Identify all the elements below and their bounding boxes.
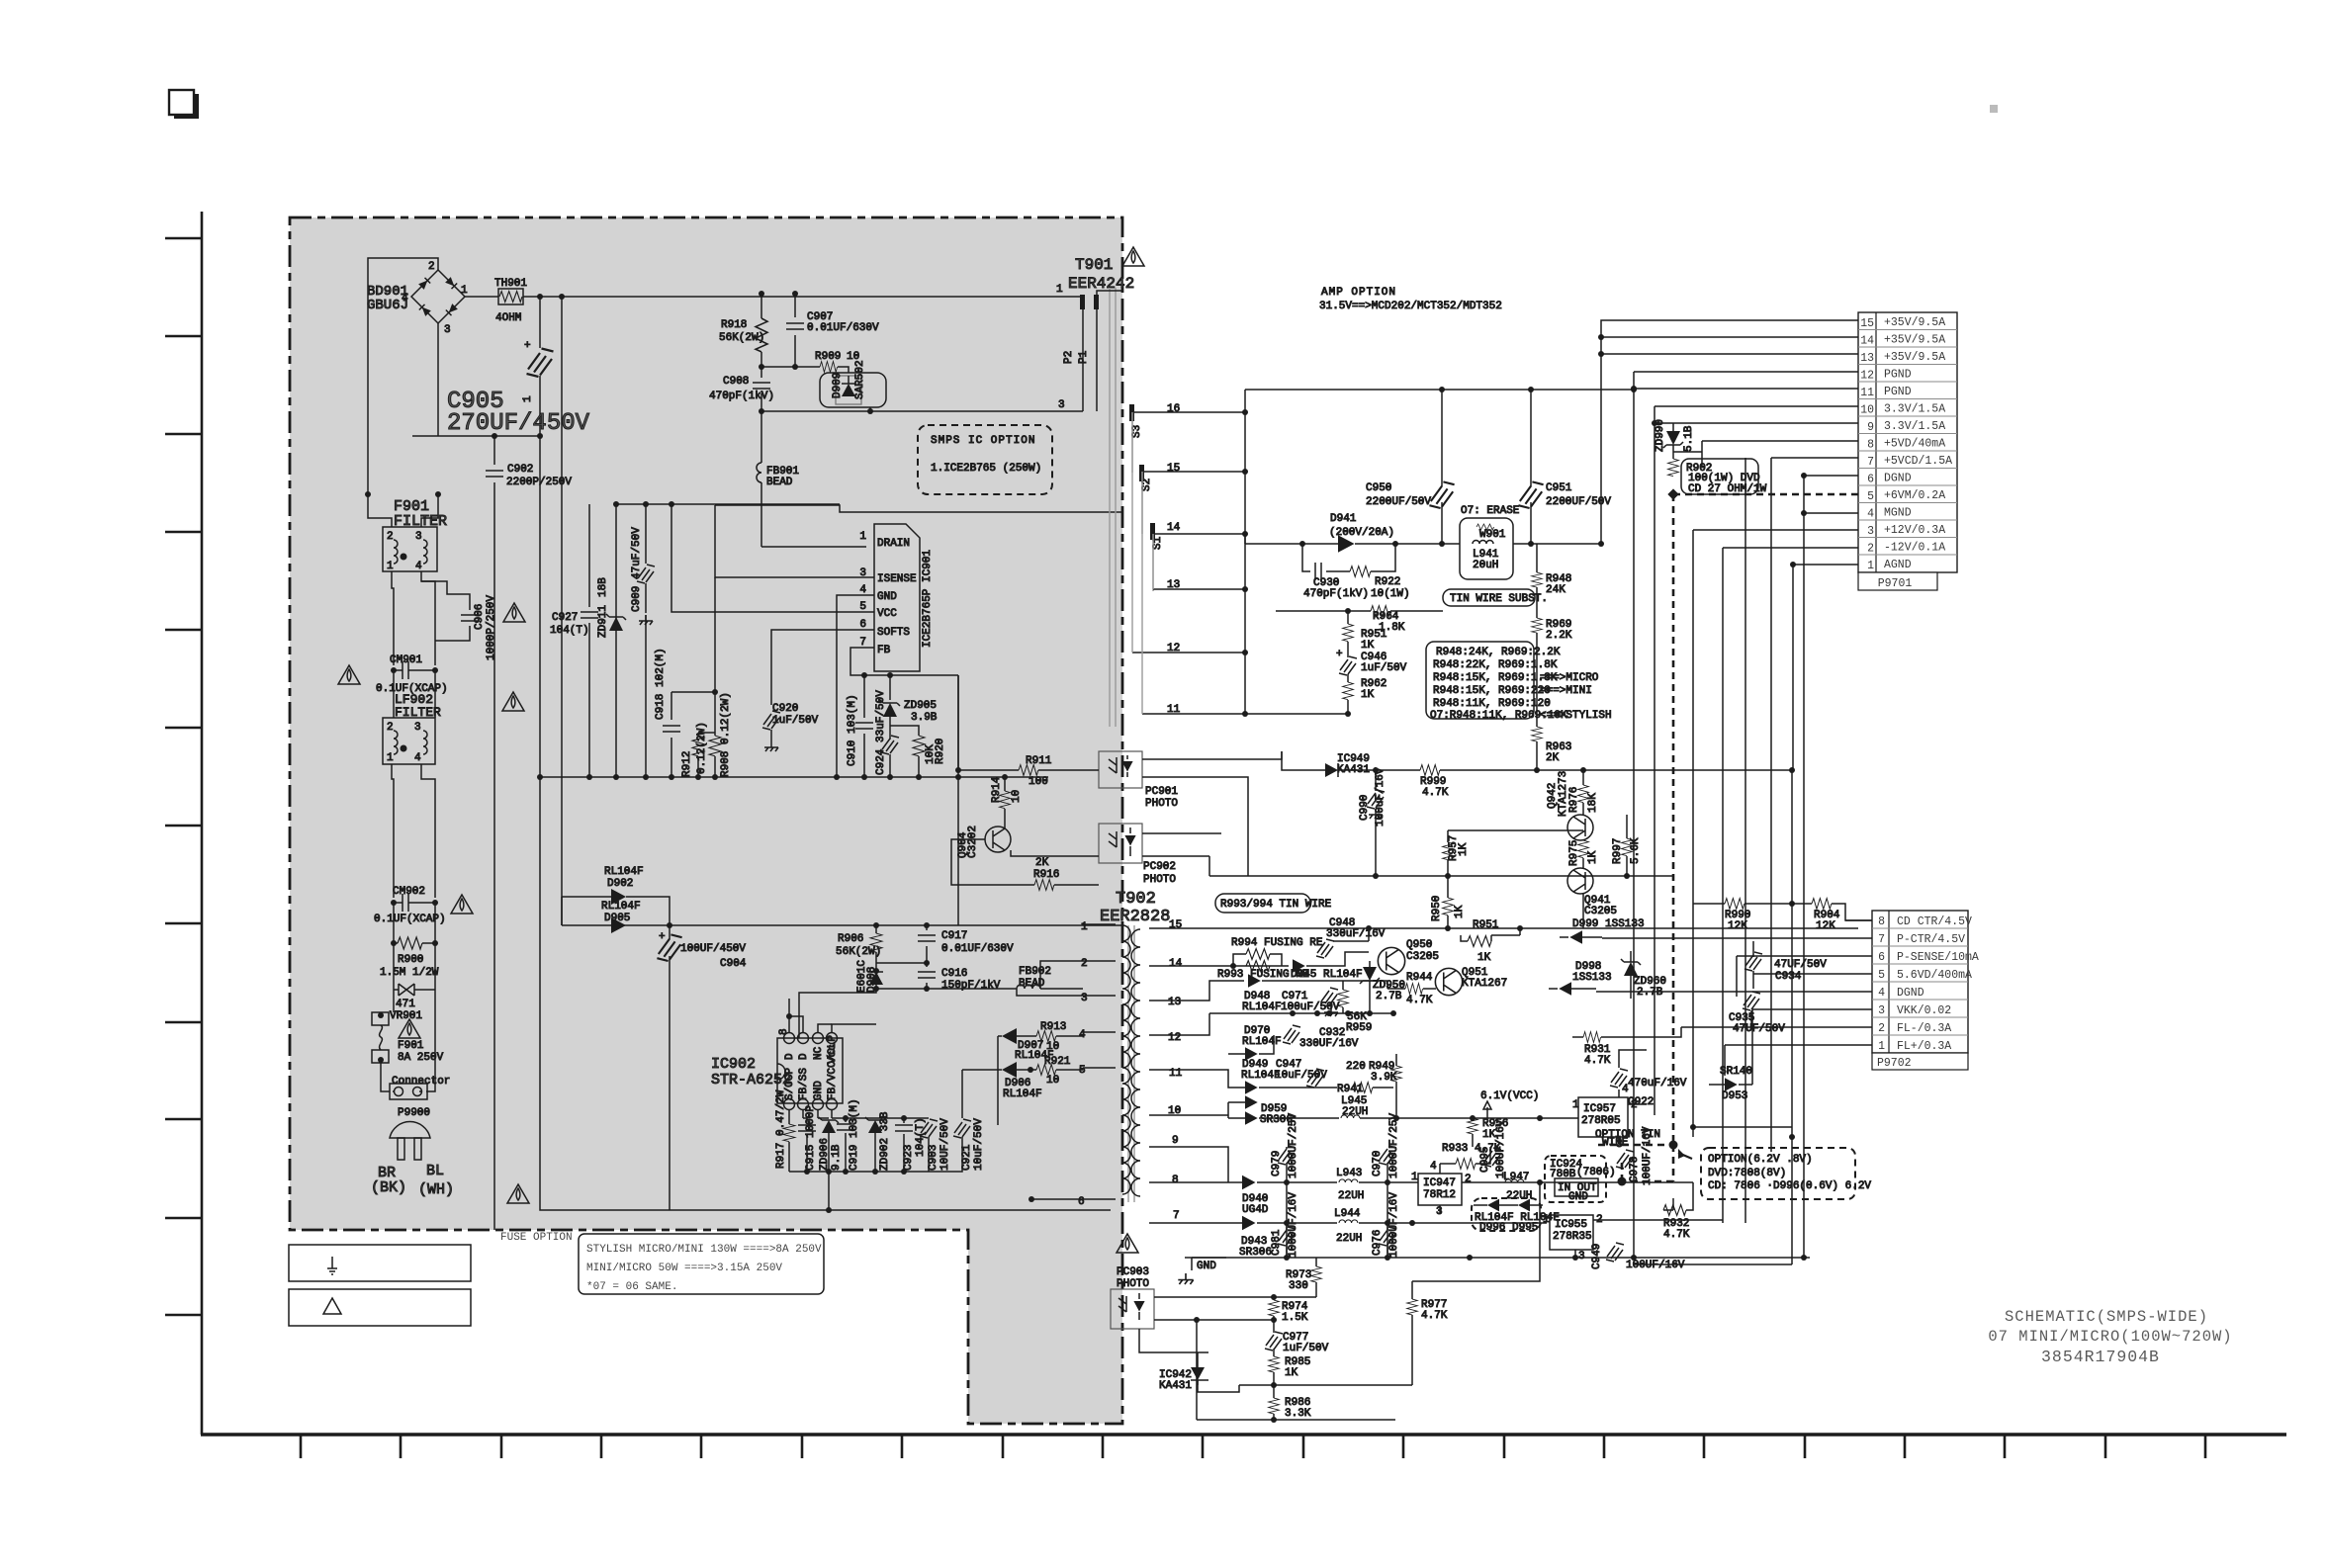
diode D945 RL104F xyxy=(1293,959,1305,973)
svg-text:3: 3 xyxy=(444,324,451,336)
wire bridge pin3 down xyxy=(437,323,439,436)
svg-text:1K: 1K xyxy=(1361,689,1375,701)
svg-text:1K: 1K xyxy=(1477,952,1491,964)
node R918/C907 xyxy=(761,366,820,368)
svg-text:VR901: VR901 xyxy=(390,1010,422,1022)
svg-text:9.1B: 9.1B xyxy=(831,1144,843,1171)
TIN WIRE SUBST. note xyxy=(1443,589,1535,606)
wire 14 loop with fusing resistors xyxy=(1202,965,1289,967)
svg-text:GND: GND xyxy=(813,1081,825,1100)
resistor R990 12K xyxy=(1693,903,1725,905)
long verticals right section xyxy=(1745,458,1792,1223)
svg-text:18B: 18B xyxy=(597,577,609,597)
filter caps C979/C970 xyxy=(1278,1146,1296,1165)
svg-text:C923: C923 xyxy=(903,1145,915,1171)
svg-text:C910 103(M): C910 103(M) xyxy=(847,694,858,766)
svg-text:10uF/50V: 10uF/50V xyxy=(973,1118,985,1171)
svg-text:P9701: P9701 xyxy=(1878,577,1913,590)
svg-text:R993/994 TIN WIRE: R993/994 TIN WIRE xyxy=(1220,899,1332,911)
svg-text:D941: D941 xyxy=(1330,513,1357,525)
fuse option note box xyxy=(579,1234,824,1294)
svg-text:R913: R913 xyxy=(1040,1021,1066,1033)
svg-text:47UF/50V: 47UF/50V xyxy=(1733,1023,1785,1035)
resistor R900 1.5M 1/2W xyxy=(394,903,435,943)
svg-text:1K: 1K xyxy=(1285,1367,1298,1379)
svg-text:0.01UF/630V: 0.01UF/630V xyxy=(941,943,1014,955)
T901 core xyxy=(1110,288,1116,727)
capacitor C927 104(T) xyxy=(588,504,590,607)
svg-text:MINI/MICRO 50W ====>3.15A 250: MINI/MICRO 50W ====>3.15A 250V xyxy=(586,1263,782,1274)
svg-text:8A 250V: 8A 250V xyxy=(398,1052,444,1064)
resistor R948 24K xyxy=(1536,544,1538,572)
svg-text:22UH: 22UH xyxy=(1342,1106,1368,1118)
resistor R920 10K xyxy=(890,726,919,736)
+12V row 3 feed xyxy=(1693,530,1858,1137)
svg-text:6: 6 xyxy=(1867,474,1874,486)
svg-text:1K: 1K xyxy=(1482,1129,1496,1141)
OPTION voltages dashed box xyxy=(1701,1148,1855,1199)
svg-text:C978: C978 xyxy=(1629,1157,1641,1182)
shaded region dash-dot border xyxy=(290,218,1122,1424)
svg-text:470pF(1kV): 470pF(1kV) xyxy=(709,391,774,402)
diode D908 E601C xyxy=(875,971,877,983)
svg-text:*07 = 06 SAME.: *07 = 06 SAME. xyxy=(586,1281,677,1293)
svg-text:24K: 24K xyxy=(1546,584,1566,596)
ground symbol in note box xyxy=(327,1257,337,1274)
capacitor C921 10uF/50V xyxy=(961,1070,963,1118)
resistor R985 1K xyxy=(1269,1356,1280,1372)
svg-text:C3205: C3205 xyxy=(1584,906,1617,917)
svg-text:78R12: 78R12 xyxy=(1423,1189,1456,1201)
svg-text:1: 1 xyxy=(1411,1172,1418,1183)
resistor R912 0.12(2W) xyxy=(698,733,715,736)
svg-text:15: 15 xyxy=(1167,463,1180,475)
svg-text:470pF(1kV): 470pF(1kV) xyxy=(1303,588,1369,600)
svg-text:GND: GND xyxy=(877,591,897,603)
long rail on right of IC902 area xyxy=(957,675,959,777)
svg-text:1K: 1K xyxy=(1361,640,1375,652)
svg-text:C3205: C3205 xyxy=(1406,951,1439,963)
svg-text:2K: 2K xyxy=(1035,857,1049,869)
svg-text:4: 4 xyxy=(1430,1161,1437,1173)
svg-text:T901: T901 xyxy=(1075,256,1113,274)
capacitor C918 102(M) xyxy=(671,692,672,720)
svg-text:+5VCD/1.5A: +5VCD/1.5A xyxy=(1884,455,1952,468)
connector P9900 xyxy=(381,990,435,1091)
svg-text:6: 6 xyxy=(859,619,866,631)
svg-text:PC902: PC902 xyxy=(1143,861,1176,873)
svg-text:DGND: DGND xyxy=(1884,473,1912,485)
svg-text:470uF/16V: 470uF/16V xyxy=(1628,1078,1687,1089)
svg-text:9: 9 xyxy=(1867,421,1874,434)
svg-text:D999 1SS133: D999 1SS133 xyxy=(1572,918,1645,930)
svg-text:L947: L947 xyxy=(1503,1172,1529,1183)
svg-text:ZD990: ZD990 xyxy=(1655,419,1666,452)
svg-text:6: 6 xyxy=(1078,1196,1085,1208)
svg-text:1: 1 xyxy=(387,561,394,572)
svg-text:D: D xyxy=(784,1053,796,1060)
IC902 top nets xyxy=(789,999,876,1032)
svg-text:IC957: IC957 xyxy=(1583,1103,1616,1115)
svg-text:P-SENSE/10mA: P-SENSE/10mA xyxy=(1897,951,1979,964)
IC901 pin nets xyxy=(715,505,1122,577)
svg-text:7: 7 xyxy=(859,637,866,649)
svg-text:100UF/16V: 100UF/16V xyxy=(1495,1119,1507,1178)
svg-text:47UF/50V: 47UF/50V xyxy=(1774,959,1827,971)
svg-text:4: 4 xyxy=(1878,987,1885,1000)
+5VCD row 7 feed xyxy=(1771,458,1858,1152)
svg-text:11: 11 xyxy=(1860,387,1874,399)
svg-text:FB902: FB902 xyxy=(1019,966,1051,978)
svg-text:4.7K: 4.7K xyxy=(1584,1055,1611,1067)
transistor Q951 KTA1267 xyxy=(1435,968,1462,995)
svg-text:FB/SS: FB/SS xyxy=(798,1068,810,1100)
svg-text:C921: C921 xyxy=(961,1144,973,1171)
svg-text:R997: R997 xyxy=(1612,838,1624,864)
svg-text:DGND: DGND xyxy=(1897,987,1924,1000)
svg-text:<==>STYLISH: <==>STYLISH xyxy=(1540,710,1612,722)
svg-text:+35V/9.5A: +35V/9.5A xyxy=(1884,334,1945,347)
svg-text:8: 8 xyxy=(778,1028,790,1035)
resistor R986 3.3K xyxy=(1269,1398,1280,1414)
zener ZD990 5.1B xyxy=(1666,431,1680,445)
IC902 bottom nets xyxy=(789,1110,832,1124)
svg-text:PHOTO: PHOTO xyxy=(1143,874,1176,886)
zener ZD960 2.7B xyxy=(1630,951,1632,962)
svg-text:2: 2 xyxy=(428,261,435,273)
svg-text:D996 D995: D996 D995 xyxy=(1479,1222,1538,1234)
PC903 lower wire xyxy=(1154,1320,1274,1420)
IC902 ground bus xyxy=(789,1171,929,1173)
option regulator IC924 dashed xyxy=(1545,1156,1606,1202)
thermistor TH901 xyxy=(498,289,523,305)
svg-text:R948:24K, R969:2.2K: R948:24K, R969:2.2K xyxy=(1436,647,1561,658)
svg-text:2: 2 xyxy=(387,722,394,734)
capacitor C977 1uF/50V xyxy=(1273,1320,1275,1333)
-12V row 2 feed xyxy=(1723,548,1858,1223)
fuse F901 8A 250V xyxy=(393,990,395,1012)
capacitor C910 103(M) xyxy=(863,675,865,718)
svg-text:R944: R944 xyxy=(1406,972,1433,984)
svg-text:CD CTR/4.5V: CD CTR/4.5V xyxy=(1897,915,1972,928)
svg-text:NC: NC xyxy=(813,1046,825,1060)
diode D948 RL104F xyxy=(1248,974,1261,988)
capacitor C923 104(T) xyxy=(875,1118,904,1123)
svg-text:===>MICRO: ===>MICRO xyxy=(1540,672,1599,684)
resistor R909 10 xyxy=(820,362,838,373)
capacitor C924 33uF/50V xyxy=(881,736,899,754)
svg-text:S2: S2 xyxy=(1141,479,1153,491)
capacitor C951 2200UF/50V xyxy=(1530,390,1532,486)
resistor R914 10 xyxy=(1000,791,1011,809)
svg-text:10: 10 xyxy=(1860,404,1874,417)
svg-text:7: 7 xyxy=(1173,1210,1180,1222)
regulator IC955 278R35 xyxy=(1550,1215,1593,1250)
resistor R951 1K xyxy=(1347,611,1349,624)
svg-text:P1: P1 xyxy=(1078,350,1090,364)
svg-text:IC955: IC955 xyxy=(1555,1219,1587,1231)
capacitor C906 1000P/250V xyxy=(421,581,470,610)
svg-text:RL104F: RL104F xyxy=(601,901,641,913)
svg-text:SCHEMATIC(SMPS-WIDE): SCHEMATIC(SMPS-WIDE) xyxy=(2005,1308,2208,1326)
svg-text:C995: C995 xyxy=(1479,1147,1491,1173)
svg-text:R917 0.47/2W: R917 0.47/2W xyxy=(775,1089,787,1169)
svg-text:4.7K: 4.7K xyxy=(1406,995,1433,1006)
resistor R950 1K xyxy=(1443,898,1454,915)
svg-text:MGND: MGND xyxy=(1884,507,1912,520)
svg-text:1000UF/25V: 1000UF/25V xyxy=(1388,1113,1400,1178)
junction nodes on HV rail xyxy=(537,294,543,300)
svg-text:RL104F: RL104F xyxy=(1242,1036,1282,1048)
photocoupler PC901 xyxy=(1099,751,1142,788)
corner registration mark xyxy=(169,90,199,119)
svg-text:1.5M 1/2W: 1.5M 1/2W xyxy=(380,967,439,979)
svg-text:R951: R951 xyxy=(1473,919,1499,931)
svg-text:1K: 1K xyxy=(1454,905,1466,918)
svg-text:C919 103(M): C919 103(M) xyxy=(849,1098,860,1171)
svg-text:+: + xyxy=(524,340,531,352)
svg-text:ZD905: ZD905 xyxy=(904,700,937,712)
svg-text:CD: 7806 ·D996(0.6V) 6.2V: CD: 7806 ·D996(0.6V) 6.2V xyxy=(1708,1180,1871,1192)
note box 1 xyxy=(289,1245,471,1281)
wire 9 stub xyxy=(1202,1147,1228,1182)
svg-text:BEAD: BEAD xyxy=(766,477,793,488)
resistor R969 2.2K xyxy=(1532,618,1543,633)
primary-side shaded region xyxy=(290,218,1122,1424)
svg-text:1.ICE2B765 (250W): 1.ICE2B765 (250W) xyxy=(931,463,1041,475)
svg-text:4: 4 xyxy=(402,293,408,305)
svg-text:AGND: AGND xyxy=(1884,559,1912,571)
svg-text:5.6K: 5.6K xyxy=(1630,837,1642,864)
transistor Q941 C3205 xyxy=(1567,868,1593,894)
svg-text:100UF/450V: 100UF/450V xyxy=(680,943,746,955)
svg-text:8: 8 xyxy=(1867,439,1874,452)
svg-text:TH901: TH901 xyxy=(494,278,527,290)
capacitor C916 150pF/1kV xyxy=(926,963,928,967)
svg-text:Q950: Q950 xyxy=(1406,939,1432,951)
capacitor C920 1uF/50V xyxy=(762,711,780,730)
svg-text:C934: C934 xyxy=(1775,971,1802,983)
svg-text:330UF/16V: 330UF/16V xyxy=(1299,1038,1359,1050)
wire 7 rail with D943/L944 xyxy=(1228,1222,1242,1224)
svg-text:278R05: 278R05 xyxy=(1581,1115,1621,1127)
svg-text:3: 3 xyxy=(1867,525,1874,538)
wire 14 into D941 xyxy=(1245,534,1338,544)
svg-text:IC902: IC902 xyxy=(711,1056,756,1073)
svg-text:C949: C949 xyxy=(1591,1244,1603,1269)
diode D906 RL104F xyxy=(998,1069,1002,1071)
svg-text:Connector: Connector xyxy=(392,1076,450,1088)
svg-text:1uF/50V: 1uF/50V xyxy=(772,715,819,727)
svg-text:C950: C950 xyxy=(1366,482,1391,494)
svg-text:VKK/0.02: VKK/0.02 xyxy=(1897,1004,1951,1017)
svg-text:(7806): (7806) xyxy=(1576,1167,1616,1178)
svg-text:P2: P2 xyxy=(1063,351,1075,364)
resistor R974 1.5K xyxy=(1269,1300,1280,1316)
svg-text:TIN WIRE SUBST.: TIN WIRE SUBST. xyxy=(1450,593,1548,605)
svg-text:CM901: CM901 xyxy=(390,654,422,666)
svg-text:2.2K: 2.2K xyxy=(1546,630,1572,642)
svg-text:C917: C917 xyxy=(941,930,967,942)
svg-text:KTA1273: KTA1273 xyxy=(1558,771,1569,817)
svg-text:C904: C904 xyxy=(720,958,747,970)
diode D941 (200V/20A) xyxy=(1338,535,1355,553)
wire R918 branch xyxy=(760,294,762,318)
diodes D959 SR306 xyxy=(1228,1101,1245,1103)
svg-text:+12V/0.3A: +12V/0.3A xyxy=(1884,524,1945,537)
R948/R969 option values table xyxy=(1426,642,1534,719)
svg-text:SMPS IC OPTION: SMPS IC OPTION xyxy=(931,435,1035,447)
transistor Q942 KTA1273 xyxy=(1567,815,1593,840)
svg-text:10: 10 xyxy=(1011,790,1023,803)
svg-text:4OHM: 4OHM xyxy=(495,312,521,324)
svg-text:P9900: P9900 xyxy=(398,1107,430,1119)
resistor R956 1K xyxy=(1468,1118,1478,1134)
svg-text:10(1W): 10(1W) xyxy=(1371,588,1410,600)
lower feedback wire xyxy=(1239,1384,1412,1386)
svg-text:C902: C902 xyxy=(507,464,533,476)
svg-text:R948:15K, R969:1.8K: R948:15K, R969:1.8K xyxy=(1433,672,1558,684)
C930 / R922 snubber xyxy=(1302,544,1395,571)
svg-text:P9702: P9702 xyxy=(1877,1057,1912,1070)
svg-text:22UH: 22UH xyxy=(1338,1190,1364,1202)
svg-text:1: 1 xyxy=(1878,1040,1885,1053)
svg-text:R911: R911 xyxy=(1026,755,1052,767)
connector P9702 xyxy=(1872,911,1968,1053)
svg-text:SOFTS: SOFTS xyxy=(877,627,910,639)
svg-text:UG4D: UG4D xyxy=(1242,1204,1269,1216)
svg-text:1SS133: 1SS133 xyxy=(1572,972,1612,984)
svg-text:ZD906: ZD906 xyxy=(819,1138,831,1171)
svg-text:(BK): (BK) xyxy=(371,1179,406,1196)
svg-text:278R35: 278R35 xyxy=(1553,1231,1592,1243)
svg-text:C908: C908 xyxy=(723,376,749,388)
svg-text:1000UF/25V: 1000UF/25V xyxy=(1288,1113,1299,1178)
svg-text:FL+/0.3A: FL+/0.3A xyxy=(1897,1040,1951,1053)
note box 2 xyxy=(289,1289,471,1326)
svg-text:8: 8 xyxy=(1172,1175,1179,1186)
svg-text:O7: ERASE: O7: ERASE xyxy=(1461,505,1520,517)
wires LF902 down xyxy=(392,764,435,898)
top PGND rail xyxy=(1245,389,1634,391)
svg-text:31.5V==>MCD202/MCT352/MDT352: 31.5V==>MCD202/MCT352/MDT352 xyxy=(1319,301,1502,312)
svg-text:AMP OPTION: AMP OPTION xyxy=(1321,287,1396,299)
capacitor C934 47UF/50V xyxy=(1744,952,1762,971)
svg-text:100uF/16V: 100uF/16V xyxy=(1375,767,1387,827)
svg-text:R918: R918 xyxy=(721,319,747,331)
svg-text:L944: L944 xyxy=(1334,1208,1361,1220)
secondary wire 15 rail xyxy=(1202,927,1858,929)
warning triangle in note box 2 xyxy=(323,1298,341,1314)
svg-text:VCC: VCC xyxy=(877,608,897,620)
capacitor C935 47UF/50V xyxy=(1743,992,1760,1010)
svg-text:RL104F: RL104F xyxy=(1003,1089,1042,1100)
page frame bottom line xyxy=(201,1433,2286,1436)
resistor R975 1K xyxy=(1578,840,1589,858)
svg-text:R922: R922 xyxy=(1375,576,1400,588)
svg-text:4: 4 xyxy=(414,752,421,764)
svg-text:===>MINI: ===>MINI xyxy=(1540,685,1592,697)
mains plug xyxy=(390,1122,430,1138)
svg-text:1: 1 xyxy=(1867,560,1874,572)
svg-text:R900: R900 xyxy=(398,954,423,966)
svg-text:(WH): (WH) xyxy=(418,1181,454,1198)
svg-text:1: 1 xyxy=(461,285,468,297)
photocoupler PC903 xyxy=(1117,1234,1138,1253)
svg-text:C927: C927 xyxy=(552,612,578,624)
svg-text:471: 471 xyxy=(396,999,415,1010)
+5VD row 8 via ZD990 xyxy=(1673,423,1858,466)
capacitor C909 47uF/50V xyxy=(637,565,655,583)
svg-text:150pF/1kV: 150pF/1kV xyxy=(941,980,1001,992)
3.3V feeds rows 10/9 xyxy=(1655,406,1858,1115)
T902 primary bumps xyxy=(1122,925,1130,1194)
P9701 footer xyxy=(1858,572,1937,590)
svg-text:3.9B: 3.9B xyxy=(911,712,938,724)
svg-text:+35V/9.5A: +35V/9.5A xyxy=(1884,351,1945,364)
capacitor C995 100UF/16V xyxy=(1483,1148,1501,1167)
svg-text:PHOTO: PHOTO xyxy=(1145,798,1178,810)
P9702 leads xyxy=(1596,920,1872,1045)
main HV rail to T901 pin1 xyxy=(523,296,1083,298)
svg-text:R921: R921 xyxy=(1044,1056,1071,1068)
svg-text:16: 16 xyxy=(1167,403,1180,415)
svg-text:5: 5 xyxy=(859,601,866,613)
svg-text:14: 14 xyxy=(1860,335,1874,348)
svg-text:C909 47uF/50V: C909 47uF/50V xyxy=(631,527,643,612)
svg-text:WIRE: WIRE xyxy=(1602,1137,1629,1149)
svg-text:15: 15 xyxy=(1860,317,1874,330)
zener ZD905 3.9B xyxy=(889,675,891,700)
svg-text:330: 330 xyxy=(1289,1280,1308,1292)
svg-text:ISENSE: ISENSE xyxy=(877,573,917,585)
AGND row 1 feed xyxy=(1793,565,1858,770)
secondary ground bus xyxy=(1185,1257,1810,1259)
svg-text:IC947: IC947 xyxy=(1423,1177,1456,1189)
node bus from T901 secondaries xyxy=(1244,390,1246,714)
svg-text:2: 2 xyxy=(1867,543,1874,556)
top distribution wire xyxy=(616,503,840,505)
svg-text:3.3K: 3.3K xyxy=(1285,1408,1311,1420)
svg-text:R908 0.12(2W): R908 0.12(2W) xyxy=(720,692,732,777)
svg-text:C951: C951 xyxy=(1546,482,1572,494)
svg-text:4: 4 xyxy=(415,561,422,572)
svg-text:104(T): 104(T) xyxy=(550,625,589,637)
svg-text:2200UF/50V: 2200UF/50V xyxy=(1366,496,1431,508)
svg-text:GND: GND xyxy=(1568,1191,1588,1203)
resistor R921 10 xyxy=(1036,1065,1056,1076)
resistor R904 12K xyxy=(1812,899,1832,910)
svg-text:F901: F901 xyxy=(398,1040,424,1052)
wire C908/D909 to T901 pin3 xyxy=(761,410,1083,412)
svg-text:2: 2 xyxy=(1081,958,1088,970)
svg-text:R994 FUSING RE: R994 FUSING RE xyxy=(1231,937,1323,949)
capacitor C902 2200P/250V xyxy=(493,436,495,465)
svg-text:R914: R914 xyxy=(991,776,1003,803)
svg-text:D: D xyxy=(798,1053,810,1060)
capacitor C917 0.01UF/630V xyxy=(926,925,928,930)
svg-text:C906: C906 xyxy=(474,604,486,630)
svg-text:9: 9 xyxy=(1172,1135,1179,1147)
svg-text:270UF/450V: 270UF/450V xyxy=(447,410,590,437)
svg-text:1000P/250V: 1000P/250V xyxy=(486,595,497,660)
svg-text:R959: R959 xyxy=(1346,1022,1372,1034)
svg-text:PGND: PGND xyxy=(1884,369,1912,382)
resistor R931 4.7K xyxy=(1572,1036,1583,1038)
svg-text:FL-/0.3A: FL-/0.3A xyxy=(1897,1022,1951,1035)
resistor R917 0.47/2W xyxy=(783,1124,795,1142)
svg-text:3.3V/1.5A: 3.3V/1.5A xyxy=(1884,403,1945,416)
